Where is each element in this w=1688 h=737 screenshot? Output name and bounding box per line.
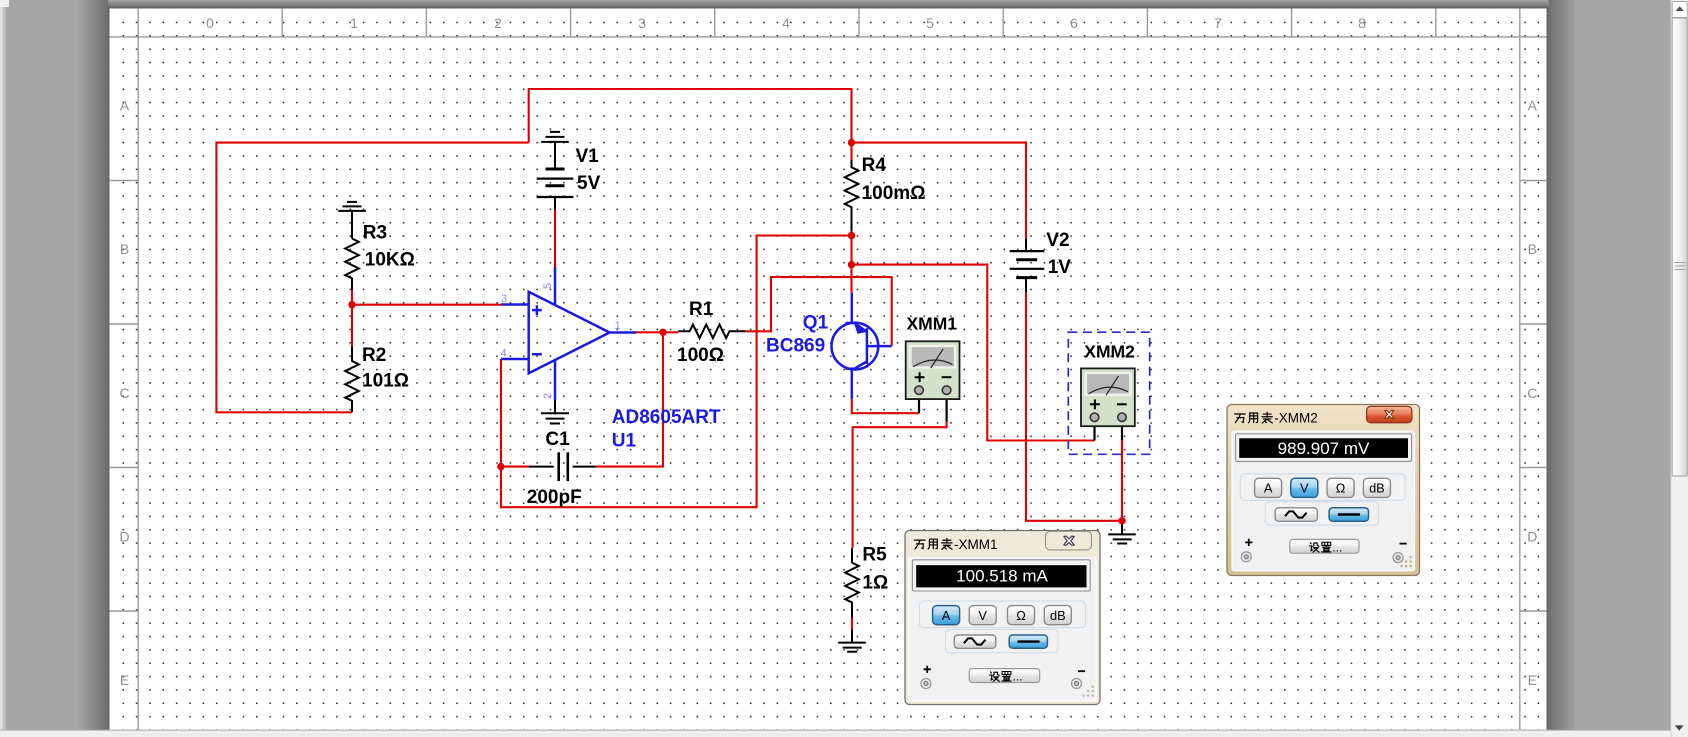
wire V1 to opamp pin5: [554, 210, 556, 267]
ground G2 above R3: [338, 202, 366, 239]
junction node R4 bottom: [848, 232, 855, 239]
ground G3 below opamp pin2: [541, 401, 569, 424]
svg-text:AD8605ART: AD8605ART: [612, 407, 721, 428]
svg-text:V: V: [978, 608, 987, 623]
resize grip XMM1: [1083, 686, 1094, 697]
svg-text:C: C: [1527, 385, 1537, 401]
wire pin4 feedback / C1 bottom rail: [501, 236, 852, 508]
content panel: [909, 558, 1097, 701]
svg-text:10KΩ: 10KΩ: [365, 250, 415, 271]
close button XMM2: [1367, 406, 1412, 422]
button sine: [1275, 508, 1317, 522]
svg-text:E: E: [120, 672, 129, 688]
settings button XMM2: [1290, 539, 1359, 553]
svg-text:100.518 mA: 100.518 mA: [956, 567, 1048, 586]
junction node ground net: [1118, 517, 1125, 524]
groupbox row2: [1265, 502, 1378, 525]
svg-text:dB: dB: [1369, 481, 1385, 496]
plus/minus labels: [924, 666, 931, 673]
display XMM2: [1236, 434, 1412, 462]
content panel: [1232, 431, 1415, 571]
resistor R3: [345, 239, 359, 291]
op-amp U1: [501, 267, 636, 401]
svg-text:1Ω: 1Ω: [862, 573, 888, 594]
wire V2 bottom to ground node: [1026, 292, 1122, 520]
svg-text:D: D: [1527, 528, 1537, 544]
junction node R4 top rail: [848, 139, 855, 146]
svg-text:5V: 5V: [577, 173, 601, 194]
button sine: [954, 635, 996, 648]
wire XMM2 minus to ground node: [1121, 440, 1123, 521]
svg-text:100mΩ: 100mΩ: [862, 183, 926, 204]
ground G1 above V1: [541, 132, 569, 169]
resistor R1: [678, 325, 745, 339]
wire net 5V rail top: [216, 89, 1026, 412]
svg-text:...: ...: [1013, 670, 1023, 684]
button dB: [1044, 606, 1071, 625]
svg-text:2: 2: [542, 393, 554, 399]
button Ohm: [1327, 478, 1354, 497]
svg-text:-XMM1: -XMM1: [954, 537, 998, 552]
button DC (selected): [1329, 508, 1368, 522]
button dB: [1363, 478, 1390, 497]
groupbox row1: [1240, 474, 1405, 501]
svg-text:A: A: [1264, 481, 1273, 496]
button A (selected): [933, 606, 960, 625]
svg-text:0: 0: [206, 15, 214, 31]
wire output node to R1 and C1: [596, 332, 679, 466]
multimeter icon XMM1: [906, 314, 960, 422]
groupbox row1: [920, 601, 1086, 628]
resistor R5: [845, 548, 859, 617]
button A: [1255, 478, 1282, 497]
ruler texts: [119, 15, 1537, 688]
svg-text:3: 3: [501, 293, 507, 305]
panel terminals XMM1: [921, 679, 931, 689]
svg-text:V1: V1: [576, 146, 600, 167]
svg-text:U1: U1: [612, 431, 637, 452]
svg-text:C: C: [119, 385, 129, 401]
button Ohm: [1008, 606, 1035, 625]
vertical scrollbar: [1671, 0, 1688, 737]
battery V2: [1010, 238, 1045, 292]
display XMM1: [912, 560, 1090, 591]
svg-text:1: 1: [615, 320, 621, 332]
wire V1 stem stub: [554, 152, 556, 163]
battery V1: [537, 169, 574, 210]
svg-text:7: 7: [1214, 15, 1222, 31]
svg-text:5: 5: [926, 15, 934, 31]
svg-text:...: ...: [1332, 540, 1342, 554]
button V: [969, 606, 996, 625]
shadow gradients around sheet: [78, 0, 108, 737]
svg-text:3: 3: [638, 15, 646, 31]
svg-text:R1: R1: [689, 299, 714, 320]
close button XMM1: [1046, 531, 1092, 550]
button V (selected): [1291, 478, 1318, 497]
svg-text:XMM1: XMM1: [907, 314, 958, 334]
title XMM2: [1235, 414, 1246, 423]
junction node C1 left / pin4: [497, 463, 504, 470]
ground G5 at V2/XMM2 node: [1108, 521, 1136, 544]
wire emitter node to R4: [850, 236, 852, 293]
transistor Q1: [832, 293, 892, 399]
svg-text:989.907 mV: 989.907 mV: [1278, 439, 1370, 458]
svg-text:Q1: Q1: [803, 312, 829, 333]
svg-text:200pF: 200pF: [527, 487, 582, 508]
groupbox row2: [946, 630, 1059, 653]
svg-text:8: 8: [1358, 15, 1366, 31]
capacitor C1: [529, 452, 596, 481]
plus/minus labels: [1245, 539, 1252, 546]
svg-text:Ω: Ω: [1016, 608, 1026, 623]
resistor R2: [345, 347, 359, 412]
svg-text:A: A: [942, 608, 951, 623]
panel terminals XMM2: [1241, 552, 1251, 562]
svg-text:1V: 1V: [1048, 257, 1072, 278]
svg-text:R5: R5: [862, 545, 887, 566]
settings button XMM1: [969, 669, 1039, 683]
junction node R3/R2 divider: [348, 301, 355, 308]
svg-text:B: B: [1528, 241, 1537, 257]
junction node emitter sense: [848, 261, 855, 268]
wire emitter node to XMM2 plus: [852, 265, 1095, 441]
svg-text:1: 1: [350, 15, 358, 31]
svg-text:A: A: [120, 98, 130, 114]
svg-text:4: 4: [782, 15, 790, 31]
svg-text:B: B: [120, 241, 129, 257]
wire R5 bottom stub: [851, 618, 853, 630]
svg-text:Ω: Ω: [1336, 481, 1346, 496]
svg-text:100Ω: 100Ω: [677, 345, 724, 366]
wire R1 to Q1 base loop: [745, 277, 891, 346]
svg-text:XMM2: XMM2: [1084, 342, 1135, 362]
svg-text:R4: R4: [862, 155, 887, 176]
wire R4 top lead stub: [850, 143, 852, 160]
svg-text:V: V: [1300, 481, 1309, 496]
wire XMM1 minus to R5: [853, 422, 947, 549]
bottom strip: [0, 731, 1688, 737]
svg-text:5: 5: [542, 283, 554, 289]
resize grip XMM2: [1401, 556, 1412, 567]
svg-text:R3: R3: [363, 222, 387, 243]
svg-text:A: A: [1528, 98, 1538, 114]
selection dashed box around XMM2: [1068, 332, 1149, 454]
ground G4 below R5: [838, 630, 866, 652]
wire C1 left: [501, 466, 529, 468]
svg-text:-XMM2: -XMM2: [1274, 411, 1318, 426]
svg-text:D: D: [119, 528, 129, 544]
svg-text:V2: V2: [1046, 230, 1069, 251]
svg-text:R2: R2: [362, 345, 386, 366]
multimeter icon XMM2: [1081, 342, 1135, 441]
svg-text:BC869: BC869: [766, 335, 825, 356]
wire collector to XMM1 plus: [852, 398, 919, 413]
button DC (selected): [1009, 635, 1047, 648]
svg-text:C1: C1: [545, 429, 570, 450]
resistor R4: [845, 160, 859, 231]
svg-text:101Ω: 101Ω: [362, 370, 409, 391]
svg-text:E: E: [1528, 672, 1537, 688]
junction node opamp output: [659, 329, 666, 336]
svg-text:dB: dB: [1050, 608, 1066, 623]
svg-text:2: 2: [494, 15, 502, 31]
title XMM1: [914, 540, 925, 549]
wire R3/R2 node to pin3: [352, 290, 502, 347]
svg-text:6: 6: [1070, 15, 1078, 31]
svg-text:4: 4: [501, 347, 507, 359]
